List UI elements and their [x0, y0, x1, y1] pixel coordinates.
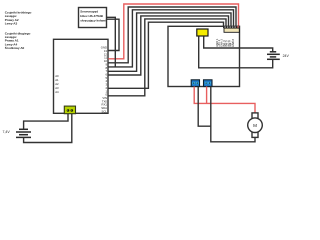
voltage regulator on driver (yellow block) — [197, 29, 208, 37]
note: short range sensors legend — [5, 11, 32, 26]
svg-text:Środkowy A0: Środkowy A0 — [5, 45, 25, 50]
wire battery 7,4V negative to arduino power terminal — [24, 114, 72, 143]
wire red motor positive from terminal J3 — [194, 87, 255, 113]
wire black bus 4 — [108, 16, 228, 75]
svg-text:Serwonapęd: Serwonapęd — [80, 10, 98, 14]
wire red motor positive from terminal J4 — [206, 87, 208, 104]
arduino U1 right pin labels — [101, 46, 108, 114]
wire black motor negative from terminal J4 — [211, 87, 255, 142]
wire servo signal — [107, 17, 116, 67]
wire black bus 1 — [108, 7, 236, 63]
servo box U2 Serwonapęd Hitec HS-475HB — [79, 8, 107, 28]
motor driver box U3 — [168, 26, 240, 86]
wire black bus 3 — [108, 13, 231, 71]
wire black bus 2 — [108, 10, 233, 67]
wire servo ground — [107, 19, 119, 50]
svg-text:Lewy A3: Lewy A3 — [5, 22, 18, 26]
wire black bus 5 — [108, 19, 226, 96]
svg-text:M: M — [253, 123, 257, 128]
svg-text:SCL: SCL — [102, 109, 108, 113]
arduino U1 — [54, 39, 109, 113]
wire black bus 6 — [108, 22, 223, 88]
terminal J1 arduino power (green screw terminal) — [64, 106, 75, 114]
svg-text:7,4V: 7,4V — [3, 130, 11, 134]
svg-text:Hitec HS-475HB: Hitec HS-475HB — [80, 14, 104, 18]
svg-text:24V: 24V — [283, 54, 290, 58]
wire red 5V bus: arduino pin to driver header — [108, 4, 238, 59]
terminal J3 motor output A (blue) — [191, 80, 199, 87]
svg-text:ENB 8: ENB 8 — [231, 39, 235, 47]
svg-text:A4: A4 — [55, 90, 59, 94]
wire regulator to battery 24V top plate — [204, 37, 273, 52]
note: long range sensors legend — [5, 31, 31, 50]
driver header pin labels (rotated) — [215, 38, 235, 47]
motor M1 — [248, 113, 263, 137]
arduino U1 left analog pin labels A0-A5 — [55, 74, 59, 94]
wire regulator to battery 24V bottom plate — [199, 37, 273, 68]
terminal J4 motor output B (blue) — [204, 80, 213, 87]
wire black motor negative from terminal J3 — [198, 87, 211, 127]
driver control header J2 — [223, 26, 239, 32]
battery BT2 24V — [267, 52, 280, 60]
wire battery 7,4V positive to arduino power terminal — [24, 114, 68, 130]
svg-text:skręcający kołami: skręcający kołami — [80, 18, 106, 22]
battery BT1 7,4V — [16, 129, 31, 137]
